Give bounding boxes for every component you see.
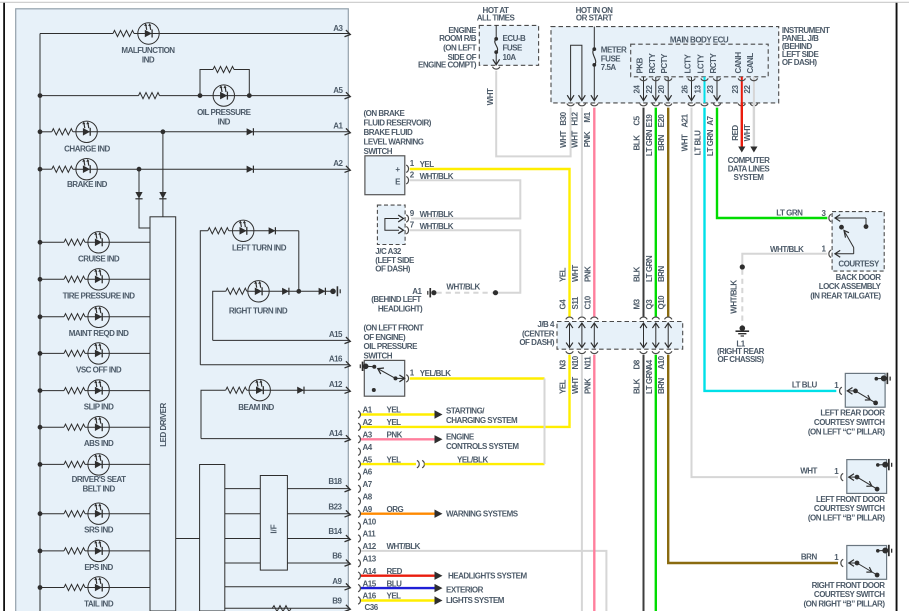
switch contacts left rear door	[847, 390, 856, 392]
arrow ECU-B fuse output	[493, 59, 500, 64]
pin A6 cluster connector	[358, 473, 360, 480]
terminal battery left rear door	[875, 377, 879, 381]
svg-text:BLK: BLK	[633, 266, 642, 282]
svg-text:10A: 10A	[503, 53, 517, 62]
svg-text:WARNING SYSTEMS: WARNING SYSTEMS	[446, 510, 519, 519]
svg-text:PKB: PKB	[636, 57, 645, 73]
wire B6 link	[225, 562, 260, 564]
svg-text:(ON LEFT FRONT: (ON LEFT FRONT	[364, 323, 424, 332]
pin A12 cluster connector	[358, 547, 360, 554]
svg-text:MALFUNCTION: MALFUNCTION	[121, 46, 175, 55]
resistor brake ind	[52, 166, 73, 172]
svg-text:BLU: BLU	[387, 579, 403, 588]
resistor charge ind	[52, 129, 73, 135]
svg-text:OF ENGINE): OF ENGINE)	[364, 333, 407, 342]
wire B18 link	[225, 488, 260, 490]
svg-text:BRAKE IND: BRAKE IND	[67, 180, 108, 189]
svg-text:7: 7	[410, 221, 415, 230]
svg-text:B9: B9	[332, 596, 342, 605]
svg-text:ECU-B: ECU-B	[503, 34, 527, 43]
wire A9 ORG to warning systems	[361, 513, 435, 515]
pin B9 exit	[225, 607, 349, 609]
pin A5 cluster connector	[358, 460, 360, 467]
svg-text:FLUID RESERVOIR): FLUID RESERVOIR)	[364, 119, 432, 128]
svg-text:B23: B23	[328, 502, 342, 511]
instrument cluster panel	[16, 9, 349, 611]
svg-text:LEVEL WARNING: LEVEL WARNING	[364, 137, 424, 146]
link S11 through J/B4	[581, 324, 583, 348]
svg-text:A7: A7	[706, 115, 715, 125]
svg-text:OIL PRESSURE: OIL PRESSURE	[364, 342, 419, 351]
svg-text:B30: B30	[559, 111, 568, 125]
svg-text:COURTESY SWITCH: COURTESY SWITCH	[814, 590, 885, 599]
svg-text:IND: IND	[218, 118, 231, 127]
svg-text:1: 1	[410, 159, 415, 168]
svg-text:BRAKE FLUID: BRAKE FLUID	[364, 128, 413, 137]
brake fluid level warning switch	[365, 156, 405, 195]
terminal battery right front door	[876, 549, 880, 553]
svg-text:23: 23	[731, 85, 740, 94]
wire ECU-B WHT to panel J/B B30	[496, 71, 570, 157]
svg-text:BRN: BRN	[657, 265, 666, 282]
svg-text:OF DASH): OF DASH)	[519, 338, 555, 347]
wire charge row A1	[38, 129, 43, 134]
pin A16 exit	[200, 364, 349, 366]
pin 1 oil pressure switch	[406, 375, 408, 382]
svg-text:Q10: Q10	[657, 295, 666, 310]
wire row srs ind	[38, 511, 43, 516]
svg-text:(CENTER: (CENTER	[522, 330, 555, 339]
switch contacts right front door	[848, 562, 857, 564]
pin A11 cluster connector	[358, 535, 360, 542]
svg-text:24: 24	[633, 85, 642, 94]
splice A5 yel/blk	[417, 460, 419, 467]
wire row vsc off ind	[38, 351, 43, 356]
diode left turn output	[269, 227, 276, 234]
svg-text:A11: A11	[363, 530, 377, 539]
svg-text:RED: RED	[387, 567, 403, 576]
svg-text:ORG: ORG	[387, 505, 404, 514]
svg-text:G4: G4	[559, 299, 568, 310]
svg-text:RED: RED	[731, 125, 740, 141]
svg-text:LED DRIVER: LED DRIVER	[159, 403, 168, 447]
svg-text:RIGHT FRONT DOOR: RIGHT FRONT DOOR	[812, 581, 886, 590]
svg-text:A12: A12	[329, 380, 343, 389]
wire malfunction row A3	[40, 33, 113, 35]
interface block I/F	[260, 476, 287, 571]
arrow to warning systems	[435, 510, 443, 518]
svg-text:WHT: WHT	[743, 124, 752, 141]
LED tire pressure ind	[88, 269, 109, 290]
svg-text:A21: A21	[681, 113, 690, 127]
svg-text:3: 3	[822, 209, 827, 218]
svg-text:WHT/BLK: WHT/BLK	[387, 542, 421, 551]
svg-text:22: 22	[743, 85, 752, 94]
pin ECU-B fuse connector	[493, 67, 500, 69]
wire row driver's seat belt ind	[38, 462, 43, 467]
connector RCTY at panel J/B edge	[652, 104, 659, 106]
svg-text:CHARGING SYSTEM: CHARGING SYSTEM	[446, 416, 518, 425]
LED srs ind	[88, 503, 109, 524]
svg-text:13: 13	[694, 85, 703, 94]
logic block	[200, 465, 225, 611]
svg-text:RCTY: RCTY	[709, 53, 718, 74]
svg-text:BEAM IND: BEAM IND	[238, 403, 274, 412]
svg-text:E20: E20	[657, 114, 666, 128]
svg-text:YEL: YEL	[387, 592, 402, 601]
connector LCTY at panel J/B edge	[701, 104, 708, 106]
pin A15 cluster connector	[358, 584, 360, 591]
svg-text:B6: B6	[332, 552, 342, 561]
svg-text:C36: C36	[365, 603, 379, 611]
svg-text:TIRE PRESSURE IND: TIRE PRESSURE IND	[63, 291, 136, 300]
wire N11 PNK down	[593, 355, 595, 611]
svg-text:OF CHASSIS): OF CHASSIS)	[717, 355, 764, 364]
svg-text:1: 1	[834, 467, 839, 476]
pin 7 J/C A32	[398, 227, 403, 234]
wire A1 YEL to starting system	[361, 413, 435, 415]
diode charge row output	[247, 128, 254, 135]
svg-text:A8: A8	[363, 493, 373, 502]
connector PCTY at panel J/B edge	[665, 104, 672, 106]
wire A3 PNK to engine controls	[361, 438, 435, 440]
svg-text:WHT/BLK: WHT/BLK	[446, 282, 480, 291]
resistor bottom cut-off	[272, 606, 291, 611]
wire WHT/BLK dashed to L1	[741, 270, 743, 327]
svg-text:WHT: WHT	[571, 377, 580, 394]
pin 9 J/C A32	[398, 215, 403, 222]
wire row cruise ind	[38, 240, 43, 245]
pin 1 brake fluid switch	[406, 165, 408, 172]
diode brake sense	[135, 192, 142, 199]
LED vsc off ind	[88, 343, 109, 364]
LED driver's seat belt ind	[88, 454, 109, 475]
svg-text:ABS IND: ABS IND	[84, 439, 114, 448]
svg-text:OIL PRESSURE: OIL PRESSURE	[197, 108, 252, 117]
wire left supply bus	[39, 34, 41, 611]
page right border	[896, 3, 898, 611]
wire A4 LT GRN down	[655, 355, 657, 611]
svg-text:TAIL IND: TAIL IND	[84, 600, 114, 609]
resistor slip ind	[64, 388, 85, 394]
svg-text:LT BLU: LT BLU	[792, 380, 818, 389]
svg-text:SWITCH: SWITCH	[364, 147, 393, 156]
svg-text:RIGHT TURN IND: RIGHT TURN IND	[229, 307, 288, 316]
wire CANL WHT to computer data lines	[753, 103, 755, 147]
svg-text:CANL: CANL	[746, 53, 755, 74]
wire panel J/B internal loop	[571, 45, 582, 100]
svg-text:WHT/BLK: WHT/BLK	[729, 280, 738, 314]
svg-text:LCTY: LCTY	[697, 53, 706, 73]
wire M3 BLK	[643, 108, 645, 317]
svg-text:CHARGE IND: CHARGE IND	[64, 145, 110, 154]
svg-text:WHT/BLK: WHT/BLK	[770, 245, 804, 254]
wire LED driver to logic block	[176, 538, 200, 540]
svg-text:LCTY: LCTY	[684, 53, 693, 73]
svg-text:LT GRN: LT GRN	[645, 367, 654, 394]
main body ECU block	[631, 44, 769, 77]
svg-text:DRIVER'S SEAT: DRIVER'S SEAT	[72, 475, 127, 484]
svg-text:WHT: WHT	[559, 131, 568, 148]
wire A5 YEL segment	[361, 463, 416, 465]
svg-text:BELT IND: BELT IND	[82, 485, 115, 494]
svg-text:(ON LEFT: (ON LEFT	[443, 44, 476, 53]
svg-text:SLIP IND: SLIP IND	[84, 403, 114, 412]
svg-text:COURTESY SWITCH: COURTESY SWITCH	[814, 418, 885, 427]
switch oil pressure contacts	[372, 365, 376, 369]
svg-text:LT GRN: LT GRN	[645, 129, 654, 156]
svg-text:A7: A7	[363, 480, 373, 489]
wire beam row	[201, 390, 226, 438]
wire oil pressure YEL/BLK horizontal	[410, 377, 545, 379]
svg-text:A4: A4	[363, 443, 373, 452]
svg-text:PNK: PNK	[583, 378, 592, 394]
node brake row junction	[137, 167, 142, 172]
svg-text:PNK: PNK	[583, 266, 592, 282]
pin A3 cluster connector	[358, 436, 360, 443]
LED brake ind	[76, 159, 97, 180]
svg-text:METER: METER	[601, 46, 627, 55]
wire Q3 LT GRN	[655, 108, 657, 317]
wire back door WHT/BLK to ground	[742, 254, 827, 265]
wire A15 BLU to exterior lights	[361, 587, 435, 589]
resistor oil pressure bypass	[213, 66, 234, 72]
wire oil pressure to A5 vertical	[544, 379, 546, 465]
svg-text:A6: A6	[363, 468, 373, 477]
svg-text:LT GRN: LT GRN	[776, 208, 803, 217]
svg-text:1: 1	[822, 245, 827, 254]
wire row abs ind	[38, 425, 43, 430]
svg-text:9: 9	[410, 209, 415, 218]
svg-text:ENGINE COMPT): ENGINE COMPT)	[418, 60, 477, 69]
pin A9 exit	[225, 586, 349, 588]
svg-text:STARTING/: STARTING/	[446, 406, 485, 415]
svg-text:PNK: PNK	[583, 131, 592, 147]
wire oil pressure bypass loop	[200, 70, 213, 96]
left rear door courtesy switch	[845, 373, 885, 407]
pin A13 cluster connector	[358, 560, 360, 567]
svg-text:BRN: BRN	[657, 377, 666, 394]
svg-text:BLK: BLK	[633, 135, 642, 151]
pin H12 panel J/B	[578, 104, 585, 106]
svg-text:J/B 4: J/B 4	[537, 320, 555, 329]
resistor oil pressure feed	[139, 93, 160, 99]
wire left turn row	[200, 231, 208, 365]
svg-text:SWITCH: SWITCH	[364, 351, 393, 360]
engine room R/B fuse box	[479, 25, 538, 65]
svg-text:(IN REAR TAILGATE): (IN REAR TAILGATE)	[810, 291, 881, 300]
svg-text:BACK DOOR: BACK DOOR	[836, 273, 882, 282]
wire B14 link	[225, 538, 260, 540]
wire J/C A32 internal loop	[385, 219, 399, 231]
left front door courtesy switch	[847, 460, 887, 494]
svg-text:YEL: YEL	[387, 418, 402, 427]
wire brake row A2	[38, 167, 43, 172]
pin A7 cluster connector	[358, 485, 360, 492]
connector PKB at panel J/B edge	[640, 104, 647, 106]
LED eps ind	[88, 540, 109, 561]
svg-text:C10: C10	[583, 295, 592, 309]
svg-text:WHT: WHT	[681, 134, 690, 151]
svg-text:D8: D8	[633, 359, 642, 369]
svg-text:N3: N3	[559, 359, 568, 369]
wire N10 WHT down	[581, 355, 583, 611]
svg-text:A1: A1	[333, 122, 343, 131]
arrow to exterior lights (A15)	[435, 584, 443, 592]
wire A7 LT GRN to back door lock	[717, 108, 827, 218]
LED slip ind	[88, 380, 109, 401]
switch contacts left front door	[848, 476, 857, 478]
page left border	[3, 3, 5, 611]
svg-text:WHT/BLK: WHT/BLK	[420, 210, 454, 219]
terminal turn signal output	[330, 289, 336, 295]
wire LT BLU to left rear door switch	[705, 108, 837, 391]
LED oil pressure ind	[213, 85, 234, 106]
svg-text:B18: B18	[328, 477, 342, 486]
LED driver block	[150, 217, 176, 611]
wire S11 WHT	[581, 108, 583, 317]
LED right turn ind	[248, 281, 269, 302]
svg-text:COURTESY SWITCH: COURTESY SWITCH	[814, 504, 885, 513]
pin A8 cluster connector	[358, 498, 360, 505]
svg-text:VSC OFF IND: VSC OFF IND	[76, 365, 122, 374]
wire Q10 BRN	[667, 108, 669, 317]
svg-text:CRUISE IND: CRUISE IND	[78, 254, 120, 263]
pin A16 cluster connector	[358, 597, 360, 604]
LED beam ind	[249, 380, 270, 401]
svg-text:N10: N10	[571, 355, 580, 369]
arrow to engine controls system	[435, 435, 443, 443]
wire brake fluid YEL to J/B4 G4	[410, 169, 570, 317]
wire charge sense drop to LED driver	[162, 132, 164, 217]
svg-text:A2: A2	[333, 159, 343, 168]
wire row maint reqd ind	[38, 314, 43, 319]
wire A5 YEL/BLK segment	[425, 463, 545, 465]
resistor srs ind	[64, 511, 85, 517]
svg-text:MAIN BODY ECU: MAIN BODY ECU	[670, 35, 729, 44]
svg-text:1: 1	[834, 381, 839, 390]
svg-text:HEADLIGHT): HEADLIGHT)	[378, 305, 423, 314]
svg-text:A12: A12	[363, 542, 377, 551]
svg-text:A9: A9	[332, 577, 342, 586]
svg-text:YEL: YEL	[387, 406, 402, 415]
svg-text:23: 23	[706, 85, 715, 94]
connector LCTY at panel J/B edge	[688, 104, 695, 106]
svg-text:22: 22	[645, 85, 654, 94]
arrow to exterior lights (A16)	[435, 596, 443, 604]
back door lock assembly	[832, 212, 884, 272]
svg-text:(ON BRAKE: (ON BRAKE	[364, 109, 406, 118]
svg-text:YEL: YEL	[559, 267, 568, 282]
svg-text:C5: C5	[633, 115, 642, 125]
resistor right turn ind	[226, 288, 247, 294]
svg-text:(ON LEFT “B” PILLAR): (ON LEFT “B” PILLAR)	[808, 514, 885, 523]
svg-text:SRS IND: SRS IND	[84, 526, 114, 535]
svg-text:YEL/BLK: YEL/BLK	[457, 455, 488, 464]
svg-text:HEADLIGHTS SYSTEM: HEADLIGHTS SYSTEM	[448, 572, 527, 581]
svg-text:EPS IND: EPS IND	[84, 563, 113, 572]
wire A12 WHT/BLK	[361, 551, 606, 611]
svg-text:ALL TIMES: ALL TIMES	[477, 14, 516, 23]
svg-text:A10: A10	[657, 355, 666, 369]
svg-text:LEFT REAR DOOR: LEFT REAR DOOR	[820, 409, 885, 418]
svg-text:OF DASH): OF DASH)	[782, 58, 818, 67]
pin B18 exit	[287, 488, 349, 490]
wire CANH RED to computer data lines	[741, 103, 743, 147]
wire C10 PNK	[593, 108, 595, 317]
connector CANL at panel J/B edge	[750, 104, 757, 106]
wire A1 headlight dashed WHT/BLK	[437, 292, 494, 294]
svg-text:7.5A: 7.5A	[601, 63, 617, 72]
pin A14 cluster connector	[358, 572, 360, 579]
link G4 through J/B4	[569, 324, 571, 348]
fuse ECU-B 10A	[495, 25, 497, 39]
svg-text:A16: A16	[329, 355, 343, 364]
svg-text:LT GRN: LT GRN	[645, 255, 654, 282]
svg-text:ENGINE: ENGINE	[446, 433, 475, 442]
pin A4 cluster connector	[358, 448, 360, 455]
resistor eps ind	[64, 548, 85, 554]
LED cruise ind	[88, 232, 109, 253]
svg-text:YEL: YEL	[387, 455, 402, 464]
wire J/C A32 pin 7 WHT/BLK to A1 headlight	[410, 230, 521, 293]
svg-text:LT GRN: LT GRN	[706, 129, 715, 156]
svg-text:LT BLU: LT BLU	[694, 130, 703, 156]
svg-text:M1: M1	[583, 111, 592, 122]
pin B30 panel J/B	[567, 104, 574, 106]
pin B14 exit	[287, 538, 349, 540]
pin A10 cluster connector	[358, 522, 360, 529]
svg-text:YEL/BLK: YEL/BLK	[420, 369, 451, 378]
junction connector J/C A32	[377, 205, 405, 244]
LED charge ind	[76, 121, 97, 142]
svg-text:N11: N11	[583, 356, 592, 370]
fuse METER 7.5A	[593, 27, 595, 49]
svg-text:SYSTEM: SYSTEM	[734, 173, 765, 182]
page top rule	[0, 1, 909, 3]
svg-text:FUSE: FUSE	[503, 44, 524, 53]
wire right turn row	[213, 291, 226, 340]
svg-text:IND: IND	[142, 55, 155, 64]
svg-text:RCTY: RCTY	[648, 53, 657, 74]
link C10 through J/B4	[593, 324, 595, 348]
svg-text:LEFT TURN IND: LEFT TURN IND	[232, 243, 287, 252]
svg-text:CANH: CANH	[734, 52, 743, 74]
terminal battery left front door	[876, 463, 880, 467]
svg-text:BLK: BLK	[633, 378, 642, 394]
diode charge sense	[159, 192, 166, 199]
LED tail ind	[88, 577, 109, 598]
LED maint reqd ind	[88, 306, 109, 327]
svg-text:OR START: OR START	[576, 14, 613, 23]
switch back door courtesy	[835, 217, 867, 219]
svg-text:WHT: WHT	[486, 88, 495, 105]
pin A14 exit	[201, 438, 349, 440]
wire A16 YEL to exterior lights	[361, 599, 435, 601]
diode turn combined output	[319, 288, 326, 295]
resistor tire pressure ind	[64, 276, 85, 282]
svg-text:S11: S11	[571, 296, 580, 309]
resistor driver's seat belt ind	[64, 461, 85, 467]
svg-text:H12: H12	[571, 111, 580, 125]
svg-text:A3: A3	[333, 24, 343, 33]
svg-text:1: 1	[410, 368, 415, 377]
svg-text:MAINT REQD IND: MAINT REQD IND	[69, 329, 129, 338]
ground L1	[740, 325, 746, 331]
svg-text:LEFT FRONT DOOR: LEFT FRONT DOOR	[816, 495, 885, 504]
arrow to starting/charging system	[435, 410, 443, 418]
pin A9 cluster connector	[358, 510, 360, 517]
